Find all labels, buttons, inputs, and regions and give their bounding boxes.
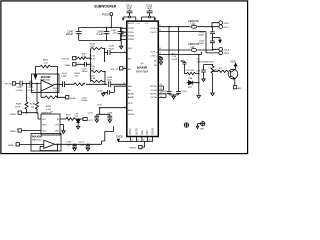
connector J10-C <box>219 25 223 29</box>
svg-text:R017: R017 <box>66 114 72 116</box>
svg-text:VOL: VOL <box>141 129 144 134</box>
capacitor C018 agnd <box>103 86 127 92</box>
capacitor C041 <box>118 28 124 41</box>
svg-text:SYNC: SYNC <box>129 128 132 135</box>
capacitor C040 <box>76 28 82 41</box>
arrow stub <box>213 38 221 41</box>
op-amp U8 MAX4040 <box>31 134 61 152</box>
resistor R014 <box>91 48 105 50</box>
svg-text:R009: R009 <box>75 73 81 75</box>
connector J10-A <box>219 48 223 52</box>
svg-text:DVDD: DVDD <box>116 136 123 139</box>
svg-text:D1B: D1B <box>188 78 193 80</box>
capacitor C104 <box>63 81 65 87</box>
transistor Q1 <box>228 69 238 79</box>
svg-text:1µF: 1µF <box>127 7 132 10</box>
wire opamp out row <box>53 83 127 85</box>
svg-text:PVDD: PVDD <box>128 28 134 30</box>
svg-text:0.47µF: 0.47µF <box>16 90 24 92</box>
wire OUTL- row <box>158 32 219 53</box>
capacitor C052 <box>20 81 22 87</box>
svg-text:MAX8510: MAX8510 <box>42 112 52 115</box>
svg-text:DGND: DGND <box>128 114 135 116</box>
svg-text:INR: INR <box>128 86 132 88</box>
ground PGND <box>119 40 123 49</box>
diode D1B <box>189 81 193 85</box>
svg-text:VREF: VREF <box>8 145 14 147</box>
svg-text:R012: R012 <box>82 53 88 55</box>
svg-text:R004: R004 <box>43 60 49 62</box>
svg-text:PGND: PGND <box>128 39 135 41</box>
svg-text:10: 10 <box>123 83 125 85</box>
svg-text:C053: C053 <box>28 87 34 89</box>
svg-text:FS2: FS2 <box>146 130 149 135</box>
svg-text:MAXIM: MAXIM <box>41 75 51 79</box>
svg-text:16.9k: 16.9k <box>15 106 21 108</box>
wire divider bus <box>90 49 92 82</box>
wire staircase to VDD area <box>102 126 114 144</box>
svg-text:2.2µF: 2.2µF <box>61 76 67 78</box>
capacitor C18 <box>201 65 213 80</box>
svg-text:5: 5 <box>122 35 123 37</box>
svg-text:VREF: VREF <box>70 98 76 100</box>
svg-text:SGND: SGND <box>152 128 155 135</box>
wire vref rail <box>21 113 41 119</box>
junction dots rails <box>106 27 122 41</box>
svg-text:J10-A: J10-A <box>223 49 229 52</box>
svg-text:RLP: RLP <box>188 87 193 89</box>
svg-text:OUTL-: OUTL- <box>151 32 158 34</box>
wire feedback bottom row <box>41 88 66 97</box>
capacitor C014 <box>210 27 215 38</box>
svg-text:24: 24 <box>160 84 162 86</box>
svg-text:21: 21 <box>131 139 133 141</box>
capacitor C017 <box>176 92 181 95</box>
svg-text:7: 7 <box>122 47 123 49</box>
svg-text:MUTE: MUTE <box>136 128 139 135</box>
op-amp U8 triangle <box>44 140 55 148</box>
connector J10-D <box>219 21 223 25</box>
svg-text:SUBWOOFER: SUBWOOFER <box>94 4 116 8</box>
svg-text:23: 23 <box>160 88 162 90</box>
mount pad 1 <box>184 123 188 127</box>
op-amp U2 MAX4334 box <box>32 74 60 93</box>
ground snubber <box>197 96 201 99</box>
capacitor C137 <box>94 114 99 120</box>
svg-text:PVDD: PVDD <box>128 32 134 34</box>
svg-text:0.1µF: 0.1µF <box>97 33 104 36</box>
svg-text:GND: GND <box>42 124 47 126</box>
svg-text:C018: C018 <box>97 90 103 92</box>
svg-text:GND: GND <box>55 130 60 132</box>
svg-text:15: 15 <box>159 48 161 50</box>
wire bottom bus <box>118 141 152 143</box>
svg-text:15pF: 15pF <box>109 48 115 50</box>
op-amp U3 MAX9736A main IC <box>127 21 159 136</box>
connector J10-B <box>219 51 223 55</box>
wire PVDD drop <box>110 16 112 28</box>
svg-text:9: 9 <box>124 67 125 69</box>
svg-text:GND: GND <box>200 128 205 130</box>
svg-text:4: 4 <box>122 31 123 33</box>
svg-text:NC: NC <box>154 65 158 67</box>
svg-text:OUTL-: OUTL- <box>151 55 158 57</box>
svg-text:VDD: VDD <box>97 104 102 106</box>
wire feedback top <box>36 67 58 98</box>
svg-text:OUTR+: OUTR+ <box>150 86 158 88</box>
svg-text:R011: R011 <box>90 66 96 68</box>
svg-text:VREF: VREF <box>10 114 16 116</box>
capacitor C036 <box>108 50 110 55</box>
svg-text:21: 21 <box>160 96 162 98</box>
svg-text:R010: R010 <box>90 75 96 77</box>
svg-text:C043: C043 <box>172 59 178 61</box>
wire divider links <box>105 49 127 85</box>
svg-text:C036: C036 <box>109 46 115 48</box>
wire PVDD rail <box>79 28 127 41</box>
svg-text:20: 20 <box>137 139 139 141</box>
svg-text:1µF: 1µF <box>113 33 117 35</box>
resistor R017 <box>60 118 78 121</box>
svg-text:11: 11 <box>159 25 161 27</box>
svg-text:1µF: 1µF <box>147 7 152 10</box>
resistor R013 <box>0 0 1 1</box>
capacitor C106 <box>74 144 76 146</box>
capacitor C042 <box>104 28 110 41</box>
jumper to VCC <box>78 118 83 120</box>
capacitor C20 <box>181 61 186 74</box>
svg-text:OUTR+: OUTR+ <box>150 94 158 96</box>
junction dots input <box>26 83 38 85</box>
resistor R19 snubber <box>187 72 199 74</box>
svg-text:R005: R005 <box>53 88 59 90</box>
svg-text:AGND: AGND <box>128 96 135 99</box>
svg-text:1µF: 1µF <box>80 144 84 146</box>
svg-text:R0-1: R0-1 <box>172 53 178 55</box>
resistor R009 <box>74 83 85 86</box>
svg-text:100pF: 100pF <box>198 35 205 37</box>
svg-text:16: 16 <box>159 53 161 55</box>
svg-text:R008: R008 <box>46 106 52 108</box>
wire OUTL+ row <box>158 26 219 28</box>
svg-text:VREF: VREF <box>10 131 16 133</box>
svg-text:180pF: 180pF <box>82 71 89 73</box>
NC termination <box>158 57 162 65</box>
svg-text:LPF_IN: LPF_IN <box>62 59 70 61</box>
svg-text:OUTR-: OUTR- <box>150 90 157 92</box>
svg-text:LPF_IN: LPF_IN <box>110 69 118 71</box>
svg-text:R039: R039 <box>30 104 36 106</box>
mount pad 2 <box>201 122 205 126</box>
wire snubber vertical <box>198 55 200 96</box>
pin labels bottom rotated <box>129 128 154 135</box>
svg-text:22: 22 <box>160 92 162 94</box>
svg-text:C137: C137 <box>88 113 94 115</box>
svg-text:PVDD: PVDD <box>102 14 109 17</box>
wire jog to top connector <box>212 23 219 27</box>
svg-text:NC: NC <box>154 61 158 63</box>
svg-text:24.9k: 24.9k <box>90 78 96 80</box>
ground C018 <box>102 92 106 96</box>
svg-text:J10-D: J10-D <box>223 23 229 25</box>
svg-text:C014: C014 <box>199 32 205 34</box>
capacitor C053 <box>30 81 32 87</box>
resistor R005 <box>45 96 57 99</box>
wire OUTL2 row <box>158 48 219 51</box>
svg-text:C038: C038 <box>107 77 113 79</box>
svg-text:R013: R013 <box>90 56 96 58</box>
resistor R039 <box>35 83 38 112</box>
bias arrow <box>34 75 37 79</box>
svg-text:C052: C052 <box>17 87 23 89</box>
resistor R7 <box>213 70 229 72</box>
wire filter cap drop 2 <box>178 27 180 92</box>
svg-text:1: 1 <box>113 85 114 87</box>
svg-text:C106: C106 <box>66 142 72 144</box>
op-amp U2 triangle <box>41 80 53 91</box>
wire right stubs outr <box>158 86 166 98</box>
wire PGND rail <box>79 36 127 41</box>
capacitor C037 <box>85 62 87 67</box>
capacitor C016 <box>167 92 172 95</box>
svg-text:OUTR-: OUTR- <box>150 97 157 99</box>
border frame <box>1 1 248 154</box>
svg-text:15pF: 15pF <box>107 80 113 82</box>
regulator U7 <box>41 114 60 135</box>
svg-text:J10-B: J10-B <box>223 53 229 55</box>
capacitor C138 <box>107 114 112 120</box>
capacitor C038 <box>109 81 111 87</box>
ground filter caps <box>169 95 179 99</box>
svg-text:C138: C138 <box>107 113 113 115</box>
svg-text:R038: R038 <box>16 104 22 106</box>
svg-text:MAXIM: MAXIM <box>32 135 42 139</box>
svg-text:C20 R19: C20 R19 <box>186 70 195 72</box>
ground R20 <box>211 93 215 96</box>
svg-text:SHDN: SHDN <box>129 147 136 149</box>
svg-text:BOOT: BOOT <box>128 23 135 25</box>
wire filter cap drop 1 <box>168 27 170 92</box>
resistor R038 <box>25 83 28 112</box>
svg-text:MAXIM: MAXIM <box>137 66 148 70</box>
node A02 terminal <box>234 78 236 85</box>
svg-text:24.9k: 24.9k <box>90 58 96 60</box>
svg-text:R014: R014 <box>90 43 96 45</box>
svg-text:VREF: VREF <box>65 65 71 67</box>
svg-text:OUTL+: OUTL+ <box>150 51 158 53</box>
wire input row <box>16 82 41 84</box>
ground U7 out2 <box>60 125 65 134</box>
resistor R004 <box>40 65 50 68</box>
svg-text:C101: C101 <box>79 142 85 144</box>
resistor R011 <box>91 70 105 72</box>
svg-text:MAX9736A: MAX9736A <box>136 70 148 73</box>
ground mount <box>196 124 200 129</box>
svg-text:J10-C: J10-C <box>223 27 229 29</box>
wire OUTL2- row <box>158 53 201 55</box>
svg-text:2: 2 <box>124 106 125 108</box>
svg-text:8: 8 <box>124 51 125 53</box>
capacitor C015 <box>210 38 215 51</box>
diode D4 <box>76 120 80 123</box>
svg-text:C017: C017 <box>182 91 188 93</box>
svg-text:15pF: 15pF <box>66 144 72 146</box>
wire U8 feedback <box>40 144 101 150</box>
svg-text:AGND: AGND <box>128 93 135 96</box>
svg-text:220µF: 220µF <box>66 33 74 36</box>
svg-text:OUTL+: OUTL+ <box>150 28 158 30</box>
resistor R010 <box>91 80 105 82</box>
node VREF terminal (fb) <box>66 96 69 99</box>
svg-text:C1+: C1+ <box>136 23 141 25</box>
svg-text:VDD: VDD <box>230 61 235 64</box>
svg-text:180pF: 180pF <box>81 100 88 102</box>
svg-text:VDD: VDD <box>128 103 133 105</box>
svg-text:C104: C104 <box>62 73 68 75</box>
svg-text:19: 19 <box>143 139 145 141</box>
svg-text:12: 12 <box>159 30 161 32</box>
svg-text:17: 17 <box>151 139 153 141</box>
capacitor C101 <box>87 144 89 146</box>
svg-text:UMK316B475KG: UMK316B475KG <box>197 61 214 63</box>
svg-text:C1-: C1- <box>145 23 149 25</box>
svg-text:MAX4040: MAX4040 <box>32 138 42 141</box>
svg-text:C015: C015 <box>199 40 205 42</box>
svg-text:REG: REG <box>128 110 133 112</box>
resistor R20 <box>211 65 214 94</box>
node PVDD terminal <box>110 13 113 16</box>
svg-text:HP_IN: HP_IN <box>5 83 12 85</box>
svg-text:PGND: PGND <box>128 36 135 38</box>
svg-text:VCC: VCC <box>88 120 93 122</box>
pin numbers <box>113 25 162 108</box>
svg-text:C037: C037 <box>82 68 88 70</box>
svg-text:3: 3 <box>122 27 123 29</box>
